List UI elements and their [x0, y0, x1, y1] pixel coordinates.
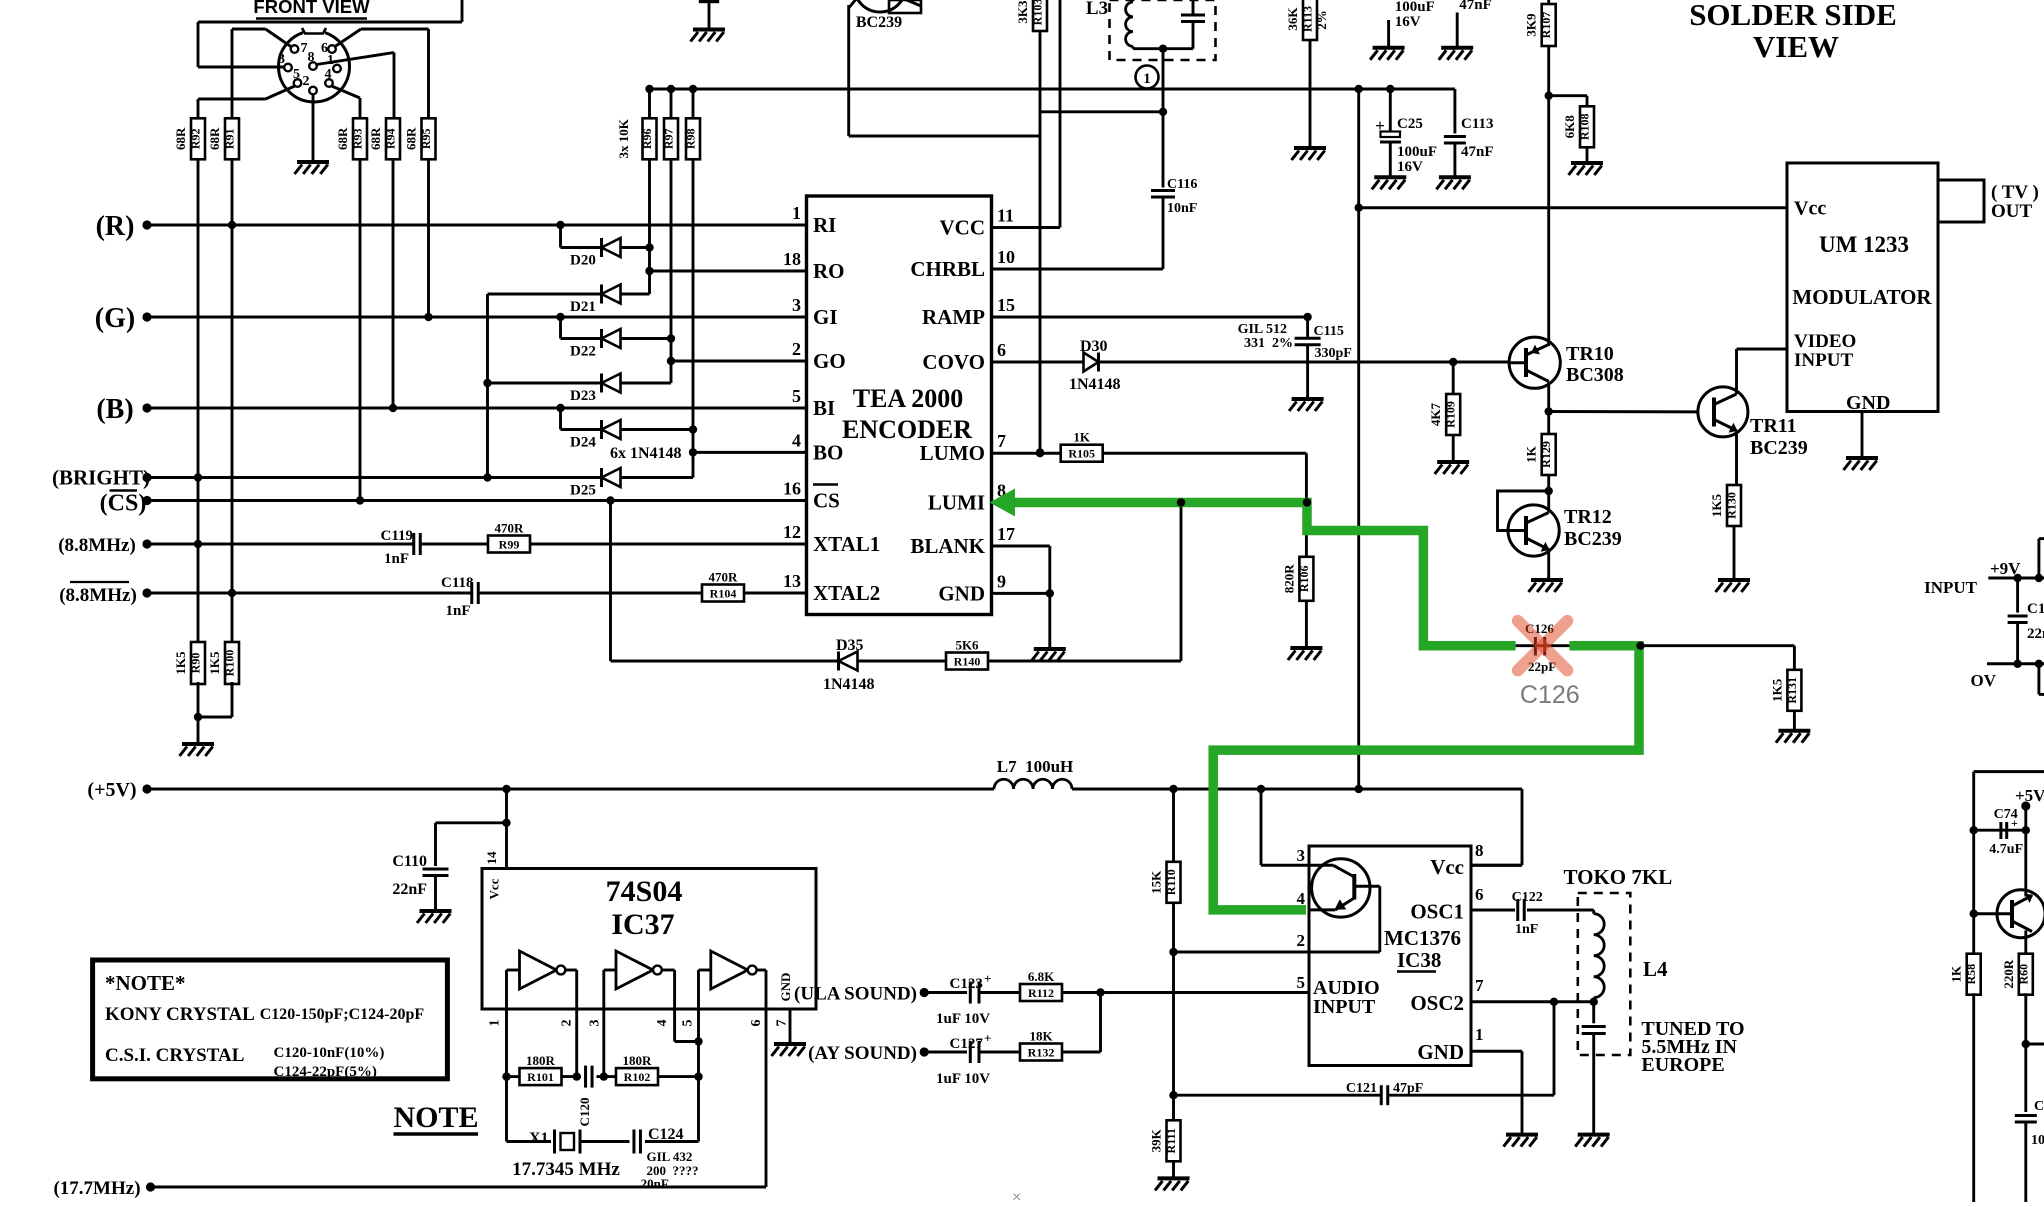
svg-text:L4: L4: [1643, 957, 1668, 981]
svg-text:RO: RO: [813, 259, 845, 283]
svg-text:18: 18: [783, 249, 801, 269]
svg-text:2: 2: [1297, 931, 1306, 950]
svg-text:VCC: VCC: [940, 216, 986, 240]
svg-text:R91: R91: [223, 128, 237, 149]
svg-text:+: +: [1375, 116, 1385, 135]
svg-text:Vcc: Vcc: [487, 878, 502, 899]
svg-text:C4: C4: [2034, 1099, 2044, 1114]
svg-text:R93: R93: [351, 128, 365, 149]
svg-text:C120: C120: [577, 1098, 592, 1127]
svg-text:(17.7MHz): (17.7MHz): [53, 1178, 140, 1199]
svg-text:(B): (B): [96, 394, 133, 425]
svg-text:C121: C121: [1346, 1081, 1377, 1096]
svg-text:1: 1: [488, 1020, 503, 1027]
svg-text:+9V: +9V: [1990, 559, 2021, 578]
svg-text:VIEW: VIEW: [1753, 29, 1839, 64]
svg-text:R94: R94: [384, 128, 398, 149]
svg-text:D24: D24: [570, 435, 596, 451]
svg-text:17: 17: [997, 524, 1015, 544]
svg-text:+: +: [984, 971, 991, 986]
svg-text:R102: R102: [624, 1070, 651, 1084]
svg-text:(ULA SOUND): (ULA SOUND): [794, 984, 917, 1005]
svg-text:7: 7: [1475, 976, 1484, 995]
svg-text:331 2%: 331 2%: [1244, 336, 1293, 351]
svg-text:47pF: 47pF: [1393, 1081, 1423, 1096]
svg-text:CHRBL: CHRBL: [910, 257, 985, 281]
svg-text:1K5: 1K5: [207, 651, 222, 675]
svg-text:D21: D21: [570, 299, 596, 315]
svg-text:3: 3: [278, 52, 285, 67]
svg-text:GIL 432: GIL 432: [647, 1149, 693, 1164]
svg-text:(BRIGHT): (BRIGHT): [52, 466, 150, 490]
svg-text:GI: GI: [813, 305, 838, 329]
svg-text:(R): (R): [96, 211, 135, 242]
svg-text:7: 7: [775, 1020, 790, 1027]
svg-text:330pF: 330pF: [1315, 346, 1352, 361]
svg-text:2: 2: [792, 339, 801, 359]
svg-text:OV: OV: [1971, 671, 1997, 690]
svg-text:INPUT: INPUT: [1313, 996, 1376, 1018]
svg-text:SOLDER SIDE: SOLDER SIDE: [1689, 0, 1897, 32]
svg-text:IC37: IC37: [611, 908, 674, 941]
svg-text:XTAL2: XTAL2: [813, 581, 880, 605]
svg-text:MODULATOR: MODULATOR: [1792, 285, 1932, 309]
svg-text:3: 3: [792, 295, 801, 315]
svg-text:R105: R105: [1068, 447, 1095, 461]
svg-text:LUMI: LUMI: [928, 491, 985, 515]
svg-text:2: 2: [303, 74, 310, 89]
svg-text:C119: C119: [381, 528, 414, 544]
svg-text:R90: R90: [189, 653, 203, 674]
svg-text:GND: GND: [938, 581, 985, 605]
svg-text:R103: R103: [1031, 0, 1045, 25]
svg-text:6x 1N4148: 6x 1N4148: [610, 445, 682, 462]
svg-text:R97: R97: [662, 128, 676, 149]
svg-text:OSC1: OSC1: [1410, 900, 1464, 924]
svg-text:68R: 68R: [404, 127, 419, 150]
svg-text:ENCODER: ENCODER: [842, 415, 972, 444]
svg-text:×: ×: [1012, 1189, 1021, 1202]
svg-text:3: 3: [588, 1020, 603, 1027]
svg-text:R107: R107: [1539, 12, 1553, 39]
svg-text:R98: R98: [684, 128, 698, 149]
svg-text:1uF 10V: 1uF 10V: [936, 1011, 990, 1027]
svg-text:1K: 1K: [1949, 965, 1964, 983]
svg-text:C25: C25: [1397, 116, 1423, 132]
svg-text:D22: D22: [570, 344, 596, 360]
svg-text:BO: BO: [813, 440, 843, 464]
svg-text:10: 10: [997, 247, 1015, 267]
svg-text:R104: R104: [710, 587, 737, 601]
svg-text:(AY SOUND): (AY SOUND): [808, 1043, 917, 1064]
svg-text:TR11: TR11: [1750, 415, 1797, 437]
svg-text:1N4148: 1N4148: [823, 676, 875, 693]
svg-text:Vcc: Vcc: [1430, 855, 1464, 879]
svg-text:( TV ): ( TV ): [1991, 182, 2039, 203]
svg-text:TR12: TR12: [1564, 506, 1612, 528]
svg-text:+: +: [984, 1031, 991, 1046]
svg-text:3x 10K: 3x 10K: [616, 118, 631, 158]
svg-text:*NOTE*: *NOTE*: [105, 971, 186, 995]
svg-text:1: 1: [1475, 1025, 1484, 1044]
svg-text:6: 6: [1475, 885, 1484, 904]
svg-text:C124-22pF(5%): C124-22pF(5%): [274, 1064, 377, 1080]
svg-text:3: 3: [1297, 846, 1306, 865]
svg-text:R99: R99: [499, 538, 520, 552]
svg-text:GND: GND: [1846, 392, 1890, 414]
svg-text:1K5: 1K5: [173, 651, 188, 675]
svg-text:TR10: TR10: [1566, 343, 1614, 365]
svg-text:1K5: 1K5: [1709, 493, 1724, 517]
svg-text:CS: CS: [813, 489, 840, 513]
svg-text:4K7: 4K7: [1428, 402, 1443, 426]
svg-text:22n: 22n: [2027, 626, 2044, 642]
svg-text:MC1376: MC1376: [1384, 926, 1461, 950]
svg-text:R131: R131: [1785, 677, 1799, 704]
svg-text:FRONT VIEW: FRONT VIEW: [253, 0, 370, 17]
svg-text:C116: C116: [1167, 177, 1197, 192]
svg-text:C127: C127: [950, 1036, 984, 1052]
svg-text:470R: 470R: [709, 570, 739, 585]
svg-text:39K: 39K: [1149, 1128, 1164, 1152]
svg-text:VIDEO: VIDEO: [1794, 331, 1856, 352]
svg-text:68R: 68R: [207, 127, 222, 150]
svg-text:BLANK: BLANK: [910, 534, 985, 558]
svg-text:R108: R108: [1578, 113, 1592, 140]
svg-text:14: 14: [484, 851, 499, 865]
svg-text:6K8: 6K8: [1562, 115, 1577, 139]
svg-text:1: 1: [792, 203, 801, 223]
svg-text:C.S.I. CRYSTAL: C.S.I. CRYSTAL: [105, 1045, 244, 1066]
svg-text:1nF: 1nF: [1515, 922, 1538, 937]
svg-text:D30: D30: [1080, 338, 1108, 355]
svg-text:220R: 220R: [2001, 959, 2016, 989]
svg-text:R95: R95: [419, 128, 433, 149]
svg-text:2%: 2%: [1314, 10, 1329, 30]
svg-text:(8.8MHz): (8.8MHz): [58, 535, 136, 556]
svg-text:R130: R130: [1725, 492, 1739, 519]
svg-text:D23: D23: [570, 388, 596, 404]
svg-text:INPUT: INPUT: [1924, 578, 1978, 597]
svg-text:1nF: 1nF: [446, 603, 471, 619]
svg-text:C120-150pF;C124-20pF: C120-150pF;C124-20pF: [260, 1006, 425, 1023]
svg-text:OUT: OUT: [1991, 201, 2033, 222]
svg-text:BC308: BC308: [1566, 364, 1624, 386]
svg-text:BC239: BC239: [1564, 528, 1622, 550]
svg-text:12: 12: [783, 522, 801, 542]
svg-text:4.7uF: 4.7uF: [1989, 842, 2023, 857]
svg-text:GND: GND: [778, 973, 793, 1002]
svg-text:R96: R96: [640, 128, 654, 149]
svg-text:(G): (G): [95, 303, 135, 334]
svg-text:EUROPE: EUROPE: [1641, 1054, 1724, 1076]
svg-text:68R: 68R: [368, 127, 383, 150]
svg-text:R111: R111: [1164, 1128, 1178, 1153]
svg-text:BC239: BC239: [856, 14, 902, 31]
svg-text:TOKO 7KL: TOKO 7KL: [1564, 865, 1673, 889]
svg-text:R100: R100: [223, 650, 237, 677]
svg-text:5: 5: [792, 386, 801, 406]
svg-text:NOTE: NOTE: [393, 1101, 478, 1134]
svg-text:(+5V): (+5V): [87, 779, 136, 801]
svg-text:R112: R112: [1028, 986, 1054, 1000]
svg-text:4: 4: [325, 67, 332, 82]
svg-text:C123: C123: [950, 976, 983, 992]
svg-text:36K: 36K: [1285, 7, 1300, 31]
svg-text:R106: R106: [1297, 565, 1311, 592]
svg-text:5: 5: [681, 1020, 696, 1027]
svg-text:GO: GO: [813, 349, 846, 373]
svg-text:16V: 16V: [1395, 14, 1421, 30]
svg-text:C124: C124: [648, 1126, 684, 1143]
svg-text:47nF: 47nF: [1461, 144, 1494, 160]
svg-text:C74: C74: [1994, 807, 2018, 822]
svg-text:16V: 16V: [1397, 159, 1423, 175]
svg-text:180R: 180R: [526, 1053, 556, 1068]
svg-text:100: 100: [2031, 1133, 2044, 1148]
svg-text:6.8K: 6.8K: [1028, 969, 1055, 984]
svg-text:(8.8MHz): (8.8MHz): [59, 585, 137, 606]
svg-text:L7 100uH: L7 100uH: [997, 757, 1074, 776]
svg-text:1: 1: [1143, 71, 1151, 87]
svg-text:GIL 512: GIL 512: [1238, 322, 1287, 337]
svg-text:68R: 68R: [335, 127, 350, 150]
svg-text:100uF: 100uF: [1397, 144, 1437, 160]
svg-text:13: 13: [783, 571, 801, 591]
svg-text:R110: R110: [1164, 869, 1178, 895]
svg-text:R109: R109: [1444, 401, 1458, 428]
svg-text:470R: 470R: [495, 521, 525, 536]
svg-text:IC38: IC38: [1397, 948, 1441, 972]
svg-text:18K: 18K: [1029, 1029, 1053, 1044]
svg-text:L3: L3: [1086, 0, 1108, 19]
svg-text:COVO: COVO: [922, 350, 985, 374]
svg-text:D25: D25: [570, 483, 596, 499]
svg-text:1K5: 1K5: [1769, 678, 1784, 702]
svg-text:(CS): (CS): [100, 491, 147, 517]
svg-text:6: 6: [749, 1020, 764, 1027]
svg-text:D20: D20: [570, 253, 596, 269]
svg-text:R140: R140: [954, 655, 981, 669]
svg-text:C118: C118: [441, 575, 474, 591]
svg-text:C120-10nF(10%): C120-10nF(10%): [274, 1045, 385, 1061]
svg-text:100uF: 100uF: [1395, 0, 1435, 15]
svg-text:3K9: 3K9: [1524, 13, 1539, 37]
svg-text:R58: R58: [1964, 964, 1978, 985]
svg-text:7: 7: [301, 41, 308, 56]
svg-text:22nF: 22nF: [392, 881, 427, 898]
svg-text:10nF: 10nF: [1167, 201, 1197, 216]
svg-text:47nF: 47nF: [1459, 0, 1492, 13]
svg-text:20nF: 20nF: [641, 1176, 669, 1191]
svg-text:74S04: 74S04: [606, 875, 683, 908]
svg-text:1uF 10V: 1uF 10V: [936, 1071, 990, 1087]
svg-text:6: 6: [997, 340, 1006, 360]
svg-text:GND: GND: [1417, 1040, 1464, 1064]
svg-text:5: 5: [1297, 973, 1306, 992]
svg-text:8: 8: [308, 50, 315, 65]
svg-text:C113: C113: [1461, 116, 1494, 132]
svg-text:C126: C126: [1520, 681, 1580, 709]
svg-text:R132: R132: [1028, 1046, 1055, 1060]
svg-text:820R: 820R: [1281, 564, 1296, 594]
svg-text:UM 1233: UM 1233: [1819, 232, 1909, 257]
svg-text:C122: C122: [1512, 890, 1543, 905]
svg-text:X1: X1: [529, 1130, 549, 1147]
svg-text:R129: R129: [1539, 441, 1553, 468]
svg-text:C110: C110: [392, 853, 427, 870]
svg-text:TEA 2000: TEA 2000: [853, 384, 964, 413]
svg-text:1K: 1K: [1073, 430, 1091, 445]
svg-text:3K3: 3K3: [1015, 0, 1030, 24]
svg-text:1K: 1K: [1524, 445, 1539, 463]
svg-text:180R: 180R: [623, 1053, 653, 1068]
svg-text:R101: R101: [527, 1070, 554, 1084]
svg-text:R60: R60: [2016, 964, 2030, 985]
svg-text:68R: 68R: [173, 127, 188, 150]
svg-text:1N4148: 1N4148: [1069, 376, 1121, 393]
svg-text:C115: C115: [1314, 324, 1344, 339]
svg-text:XTAL1: XTAL1: [813, 532, 880, 556]
svg-text:4: 4: [792, 430, 801, 450]
svg-text:R113: R113: [1301, 6, 1315, 32]
svg-text:15: 15: [997, 295, 1015, 315]
svg-text:BI: BI: [813, 396, 835, 420]
svg-text:KONY CRYSTAL: KONY CRYSTAL: [105, 1004, 255, 1025]
svg-text:RAMP: RAMP: [922, 305, 985, 329]
svg-text:16: 16: [783, 479, 801, 499]
svg-text:7: 7: [997, 431, 1006, 451]
svg-text:LUMO: LUMO: [920, 441, 985, 465]
svg-text:15K: 15K: [1149, 870, 1164, 894]
svg-text:5: 5: [293, 67, 300, 82]
svg-text:17.7345 MHz: 17.7345 MHz: [512, 1159, 620, 1180]
svg-text:4: 4: [655, 1020, 670, 1027]
svg-text:D35: D35: [836, 637, 864, 654]
svg-text:5K6: 5K6: [955, 638, 979, 653]
svg-text:+5V: +5V: [2015, 786, 2044, 805]
svg-text:RI: RI: [813, 213, 836, 237]
svg-text:2: 2: [560, 1020, 575, 1027]
svg-text:1nF: 1nF: [384, 551, 409, 567]
svg-text:11: 11: [997, 206, 1014, 226]
svg-text:INPUT: INPUT: [1794, 350, 1853, 371]
svg-text:8: 8: [1475, 841, 1484, 860]
svg-text:Vcc: Vcc: [1794, 198, 1826, 220]
svg-text:BC239: BC239: [1750, 437, 1808, 459]
svg-text:R92: R92: [189, 128, 203, 149]
svg-text:C10: C10: [2027, 601, 2044, 617]
svg-text:OSC2: OSC2: [1410, 991, 1464, 1015]
svg-text:9: 9: [997, 571, 1006, 591]
